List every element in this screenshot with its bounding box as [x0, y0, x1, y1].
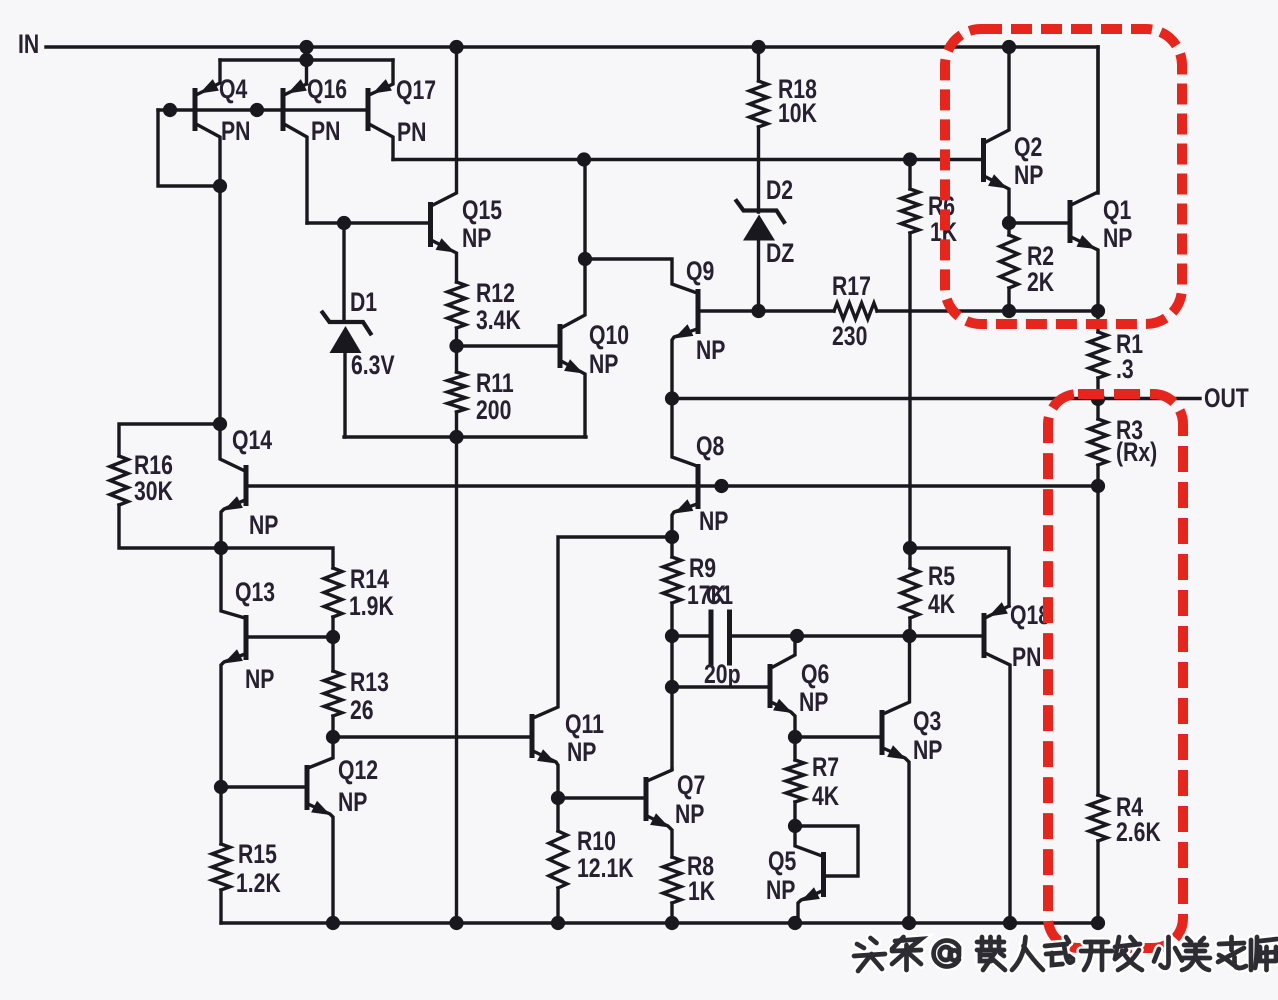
wire 437 bus — [344, 435, 586, 438]
transistor Q12 collector lead — [308, 737, 333, 768]
wire Q1 base wire — [1009, 221, 1068, 224]
resistor R4 — [1089, 795, 1107, 841]
junction base-bus left — [163, 103, 177, 117]
svg-text:10K: 10K — [778, 99, 817, 129]
transistor Q18 bar — [982, 613, 987, 658]
resistor R18 — [750, 81, 768, 127]
junction bus/R11-drop — [449, 916, 463, 930]
resistor R6 — [901, 189, 919, 233]
resistor R9 — [663, 557, 681, 603]
svg-text:NP: NP — [1103, 224, 1132, 254]
wire R16 bottom lead — [119, 505, 221, 548]
transistor Q18 emitter lead — [985, 606, 1009, 618]
wire R3 top lead — [1096, 399, 1099, 419]
junction bus/Q18-collector — [1003, 916, 1017, 930]
wire R13 bottom lead — [331, 716, 334, 737]
svg-text:R14: R14 — [350, 565, 389, 595]
junction Q13-emitter/Q12-base/R15 — [214, 780, 228, 794]
wire R2 bottom lead — [1007, 288, 1010, 311]
junction R14/R13/Q13-base — [326, 630, 340, 644]
junction bus/R10 — [551, 916, 565, 930]
wire R14 bottom lead — [331, 617, 334, 637]
svg-text:R11: R11 — [476, 369, 514, 399]
junction Q2-emitter/R2/Q1-base — [1002, 216, 1016, 230]
wire R12-R11 — [455, 328, 458, 372]
capacitor C1 left plate — [709, 612, 714, 663]
resistor R8 — [663, 857, 681, 903]
transistor Q16 emitter arrow — [288, 79, 307, 93]
svg-text:OUT: OUT — [1204, 384, 1249, 414]
junction R11/437-bus — [449, 430, 463, 444]
wire C1 node to R5 node — [797, 634, 909, 637]
wire R8 bottom lead — [670, 903, 673, 923]
svg-text:2.6K: 2.6K — [1116, 818, 1161, 848]
svg-text:4K: 4K — [812, 782, 840, 812]
transistor Q9 emitter arrow — [674, 324, 693, 338]
svg-text:1.9K: 1.9K — [349, 592, 394, 622]
transistor Q6 emitter lead — [771, 702, 795, 737]
junction Q6-emitter/R7/Q3-base — [788, 730, 802, 744]
transistor Q3 bar — [880, 710, 885, 755]
junction bus/R6 — [903, 152, 917, 166]
wire bottom bus — [221, 921, 1098, 924]
junction Q15-base/D1 — [337, 216, 351, 230]
svg-text:3.4K: 3.4K — [476, 306, 521, 336]
wire Q6 base wire — [672, 685, 768, 688]
svg-text:R7: R7 — [812, 753, 839, 783]
junction emitter-bus/Q16 — [299, 53, 313, 67]
svg-text:PN: PN — [1012, 643, 1041, 673]
transistor Q6 collector lead — [771, 636, 795, 668]
wire R5 top lead — [908, 548, 911, 568]
svg-text:R15: R15 — [238, 840, 277, 870]
svg-text:NP: NP — [675, 800, 704, 830]
junction OUT/R1/R3 — [1091, 392, 1105, 406]
diode D1 cathode bar — [323, 313, 371, 334]
transistor Q16 collector lead — [284, 124, 307, 223]
wire Q11 collector branch — [533, 537, 672, 718]
wire R4 bottom lead — [1096, 841, 1099, 923]
junction Q8-base — [714, 479, 728, 493]
junction R7/Q5 — [788, 819, 802, 833]
wire R16 top lead — [119, 424, 220, 456]
svg-text:Q14: Q14 — [232, 426, 273, 456]
transistor Q8 collector lead — [672, 399, 697, 467]
transistor Q8 emitter arrow — [674, 499, 693, 513]
junction R12/R11/Q10-base — [449, 339, 463, 353]
wire R14 top lead — [221, 548, 333, 568]
transistor Q6 emitter arrow — [773, 699, 792, 713]
junction bus/Q12-emitter — [326, 916, 340, 930]
svg-text:R10: R10 — [577, 827, 616, 857]
junction R5-top/Q18-emitter — [903, 541, 917, 555]
transistor Q2 collector lead — [984, 47, 1009, 143]
svg-text:R5: R5 — [928, 562, 955, 592]
wire Q5 base strap — [795, 826, 858, 876]
junction bus/Q5-emitter — [788, 916, 802, 930]
junction Q14-collector/R16 — [213, 417, 227, 431]
junction C1/Q6-collector — [790, 629, 804, 643]
svg-text:DZ: DZ — [766, 239, 794, 269]
svg-text:NP: NP — [589, 350, 618, 380]
wire R6 top lead — [908, 160, 911, 190]
transistor Q12 base wire — [221, 785, 305, 788]
wire R7 top lead — [793, 737, 796, 760]
transistor Q2 emitter arrow — [988, 174, 1007, 188]
transistor Q17 emitter lead — [369, 60, 393, 95]
wire C1 left lead — [672, 634, 709, 637]
svg-text:Q6: Q6 — [801, 660, 829, 690]
svg-text:Q8: Q8 — [696, 432, 724, 462]
transistor Q5 emitter lead — [798, 891, 822, 923]
watermark text 头条@嵌入式开发小美老师 — [854, 937, 1277, 971]
svg-text:R12: R12 — [476, 279, 515, 309]
transistor Q13 emitter lead — [221, 654, 245, 787]
wire R3 bottom lead — [1096, 465, 1099, 486]
junction Q11-emitter/R10/Q7-base — [551, 791, 565, 805]
wire Q7 base wire — [558, 796, 644, 799]
svg-text:NP: NP — [1014, 161, 1043, 191]
transistor Q1 collector lead — [1071, 47, 1098, 205]
transistor Q1 emitter lead — [1071, 237, 1098, 311]
junction bus/R8 — [665, 916, 679, 930]
transistor Q10 bar — [558, 324, 563, 368]
transistor Q10 emitter arrow — [564, 359, 583, 373]
transistor Q13 base wire — [246, 635, 333, 638]
transistor Q8 emitter lead — [672, 504, 697, 557]
wire Q3 base wire — [795, 735, 880, 738]
junction Q10-collector/Q9-branch — [578, 252, 592, 266]
resistor R15 — [212, 844, 230, 890]
svg-text:1K: 1K — [688, 877, 716, 907]
wire C1 right lead — [731, 634, 797, 637]
svg-text:D2: D2 — [766, 176, 793, 206]
transistor Q5 emitter arrow — [801, 887, 820, 901]
diode D2 bottom lead — [757, 240, 760, 311]
svg-text:NP: NP — [462, 224, 491, 254]
transistor Q14 emitter arrow — [224, 496, 243, 510]
svg-text:Q17: Q17 — [396, 76, 436, 106]
svg-text:Q4: Q4 — [219, 75, 248, 105]
transistor Q2 bar — [981, 138, 986, 182]
transistor Q17 emitter arrow — [373, 79, 392, 93]
transistor Q14 bar — [244, 465, 249, 506]
transistor Q11 base wire — [333, 735, 530, 738]
svg-text:D1: D1 — [350, 288, 377, 318]
wire R6/R5 long vertical — [908, 233, 911, 548]
transistor Q18 collector lead — [985, 653, 1010, 923]
svg-text:Q12: Q12 — [338, 756, 378, 786]
transistor Q10 collector lead — [561, 160, 585, 329]
transistor Q14 emitter lead — [221, 500, 245, 548]
junction Q4 collector/loop — [213, 179, 227, 193]
junction bus/Q10-branch — [577, 152, 591, 166]
svg-text:Q2: Q2 — [1014, 133, 1042, 163]
resistor R5 — [901, 568, 919, 618]
transistor Q2 base is bus end — [981, 158, 985, 161]
wire R11 to bottom bus — [455, 412, 458, 437]
svg-text:Q13: Q13 — [235, 578, 275, 608]
wire R7 bottom lead — [793, 802, 796, 826]
svg-text:R13: R13 — [350, 668, 389, 698]
wire R10 top lead — [556, 798, 559, 831]
svg-text:NP: NP — [245, 665, 274, 695]
transistor Q12 bar — [305, 765, 310, 810]
svg-text:NP: NP — [766, 876, 795, 906]
resistor R2 — [1000, 235, 1018, 288]
wire Q16 emitter riser — [305, 47, 308, 84]
wire R13 top lead — [331, 637, 334, 671]
svg-text:PN: PN — [221, 117, 250, 147]
svg-text:Q1: Q1 — [1103, 196, 1131, 226]
transistor Q12 emitter lead — [308, 804, 333, 923]
wire C1 node to Q6-base node — [670, 636, 673, 687]
junction Q14-emitter/Q13-collector — [214, 541, 228, 555]
transistor Q12 emitter arrow — [311, 801, 330, 815]
junction IN/R18 — [751, 40, 765, 54]
svg-text:R17: R17 — [832, 272, 871, 302]
svg-text:Q5: Q5 — [768, 847, 796, 877]
transistor Q9 emitter lead — [672, 329, 697, 399]
svg-text:NP: NP — [699, 507, 728, 537]
junction Q8-emitter/Q11-collector — [665, 530, 679, 544]
transistor Q10 emitter lead — [561, 361, 585, 437]
resistor R11 — [448, 372, 466, 412]
wire Q18 emitter feed — [910, 548, 1009, 606]
transistor Q7 bar — [644, 777, 649, 821]
wire PNP emitter bus — [220, 58, 393, 61]
wire base feedback line — [246, 484, 1098, 487]
transistor Q10 base wire — [457, 344, 559, 347]
transistor Q13 emitter arrow — [224, 649, 243, 663]
transistor Q7 collector lead — [647, 769, 672, 781]
junction base-bus mid — [250, 103, 264, 117]
svg-text:4K: 4K — [928, 590, 956, 620]
resistor R1 — [1089, 332, 1107, 378]
transistor Q4 emitter arrow — [200, 79, 219, 93]
wire R17 left lead — [759, 309, 835, 312]
wire R1 bottom lead — [1096, 378, 1099, 399]
transistor Q1 emitter arrow — [1077, 235, 1097, 249]
transistor Q18 emitter arrow — [989, 602, 1008, 616]
transistor Q15 collector lead — [431, 47, 457, 206]
diode D2 anode triangle — [743, 215, 775, 241]
transistor Q17 collector lead — [369, 124, 393, 160]
junction R5-bottom/Q3-collector — [902, 629, 916, 643]
transistor Q11 bar — [530, 714, 535, 758]
svg-text:C1: C1 — [706, 581, 733, 611]
svg-text:230: 230 — [832, 322, 867, 352]
svg-text:NP: NP — [696, 336, 725, 366]
diode D1 anode triangle — [330, 326, 362, 353]
junction bus/Q3-emitter — [902, 916, 916, 930]
transistor Q17 bar — [366, 88, 371, 131]
svg-text:Q9: Q9 — [686, 257, 714, 287]
transistor Q3 emitter arrow — [887, 745, 906, 759]
transistor Q9 base wire — [698, 309, 759, 312]
transistor Q15 base wire — [307, 221, 428, 224]
transistor Q4 collector lead — [196, 124, 220, 186]
wire R18 top lead — [757, 47, 760, 81]
resistor R12 — [448, 282, 466, 328]
transistor Q9 bar — [696, 289, 701, 334]
transistor Q6 bar — [768, 664, 773, 708]
svg-text:Q7: Q7 — [677, 771, 705, 801]
transistor Q1 bar — [1068, 200, 1073, 243]
svg-text:NP: NP — [249, 511, 278, 541]
svg-text:IN: IN — [18, 30, 39, 60]
junction IN/Q16-emitter — [299, 40, 313, 54]
svg-text:1.2K: 1.2K — [236, 869, 281, 899]
transistor Q16 bar — [281, 88, 286, 131]
transistor Q15 emitter arrow — [436, 238, 455, 252]
junction IN/Q2-collector — [1002, 40, 1016, 54]
wire R3-R4 long vertical — [1096, 486, 1099, 795]
transistor Q7 emitter lead — [647, 816, 672, 857]
junction D2/Q9-base/R17 — [751, 304, 765, 318]
junction Q6-base-node — [665, 680, 679, 694]
wire R1 top lead — [1096, 311, 1099, 332]
svg-text:PN: PN — [397, 118, 426, 148]
transistor Q4 bar — [193, 88, 198, 131]
resistor R3 — [1089, 419, 1107, 465]
svg-text:NP: NP — [913, 736, 942, 766]
transistor Q5 bar — [821, 852, 826, 897]
resistor R10 — [549, 831, 567, 888]
svg-text:2K: 2K — [1027, 268, 1055, 298]
transistor Q4 emitter lead — [196, 60, 220, 95]
junction R9/C1 — [665, 629, 679, 643]
wire R15 bottom lead — [219, 890, 222, 923]
svg-text:PN: PN — [311, 117, 340, 147]
wire long drop R11-bus to ground bus — [455, 437, 458, 923]
svg-text:Q11: Q11 — [565, 710, 604, 740]
transistor Q13 bar — [244, 615, 249, 660]
svg-text:Q16: Q16 — [307, 75, 347, 105]
junction bus/R4 — [1091, 916, 1105, 930]
transistor Q11 emitter lead — [533, 751, 558, 798]
resistor R7 — [786, 760, 804, 802]
wire R5 bottom lead — [908, 618, 911, 636]
transistor Q5 collector lead — [795, 826, 822, 856]
junction R3/feedback-line — [1091, 479, 1105, 493]
wire Q7 collector riser — [670, 687, 673, 769]
wire long drop to Q14 — [218, 186, 221, 424]
resistor R14 — [324, 568, 342, 617]
wire R2 top lead — [1007, 223, 1010, 235]
svg-text:NP: NP — [799, 688, 828, 718]
svg-text:Q3: Q3 — [913, 707, 941, 737]
resistor R16 — [110, 456, 128, 505]
wire PNP base bus — [158, 108, 368, 111]
svg-text:NP: NP — [338, 788, 367, 818]
svg-text:(Rx): (Rx) — [1116, 438, 1157, 468]
svg-text:R9: R9 — [689, 554, 716, 584]
wire R18 to D2 — [757, 127, 760, 212]
wire R10 bottom lead — [556, 888, 559, 923]
wire R17 right lead — [877, 309, 910, 312]
svg-text:Q10: Q10 — [589, 321, 629, 351]
resistor R13 — [324, 671, 342, 716]
transistor Q13 collector lead — [221, 548, 245, 618]
diode D1 top lead — [342, 223, 345, 320]
capacitor C1 right plate — [727, 612, 732, 663]
wire Q9 collector branch — [585, 259, 697, 293]
wire IN bus — [46, 45, 1098, 48]
junction OUT/Q9-emitter/Q8-collector — [665, 391, 679, 405]
svg-text:20p: 20p — [704, 660, 741, 690]
wire Q1 collector drop from IN bus — [1096, 47, 1099, 193]
highlight box 1 (Q1/Q2/R2) — [945, 29, 1182, 324]
transistor Q14 collector lead — [220, 424, 245, 471]
wire OUT line — [672, 397, 1200, 400]
diode D2 cathode bar — [737, 201, 785, 222]
resistor R17 — [834, 303, 877, 319]
svg-text:.3: .3 — [1116, 355, 1134, 385]
wire Q4 diode loop — [158, 110, 220, 186]
svg-text:200: 200 — [476, 396, 511, 426]
wire box1 bottom bus — [910, 309, 1098, 312]
transistor Q3 collector lead — [883, 636, 910, 714]
wire R9 to C1 node — [670, 603, 673, 636]
transistor Q3 emitter lead — [883, 748, 909, 923]
wire Q17-collector to Q2-base bus — [393, 158, 983, 161]
transistor Q16 emitter lead — [284, 84, 307, 95]
svg-text:6.3V: 6.3V — [351, 351, 395, 381]
transistor Q8 bar — [696, 464, 701, 509]
wire R15 top lead — [219, 787, 222, 844]
junction Q1-emitter-bottom — [1091, 304, 1105, 318]
junction R13/Q12-collector/Q11-base — [326, 730, 340, 744]
svg-text:12.1K: 12.1K — [577, 854, 634, 884]
junction R2-bottom — [1002, 304, 1016, 318]
transistor Q7 emitter arrow — [650, 813, 669, 827]
transistor Q15 bar — [428, 202, 433, 247]
junction IN/Q15-collector — [449, 40, 463, 54]
svg-text:Q15: Q15 — [462, 196, 502, 226]
transistor Q11 emitter arrow — [537, 749, 556, 763]
transistor Q15 emitter lead — [431, 240, 457, 282]
svg-text:30K: 30K — [134, 477, 173, 507]
transistor Q2 emitter lead — [984, 176, 1009, 223]
diode D1 bottom lead — [343, 353, 346, 437]
svg-text:NP: NP — [567, 738, 596, 768]
highlight box 2 (R3/R4) — [1048, 394, 1183, 948]
wire to Q18 base — [910, 634, 983, 637]
svg-text:26: 26 — [350, 696, 374, 726]
